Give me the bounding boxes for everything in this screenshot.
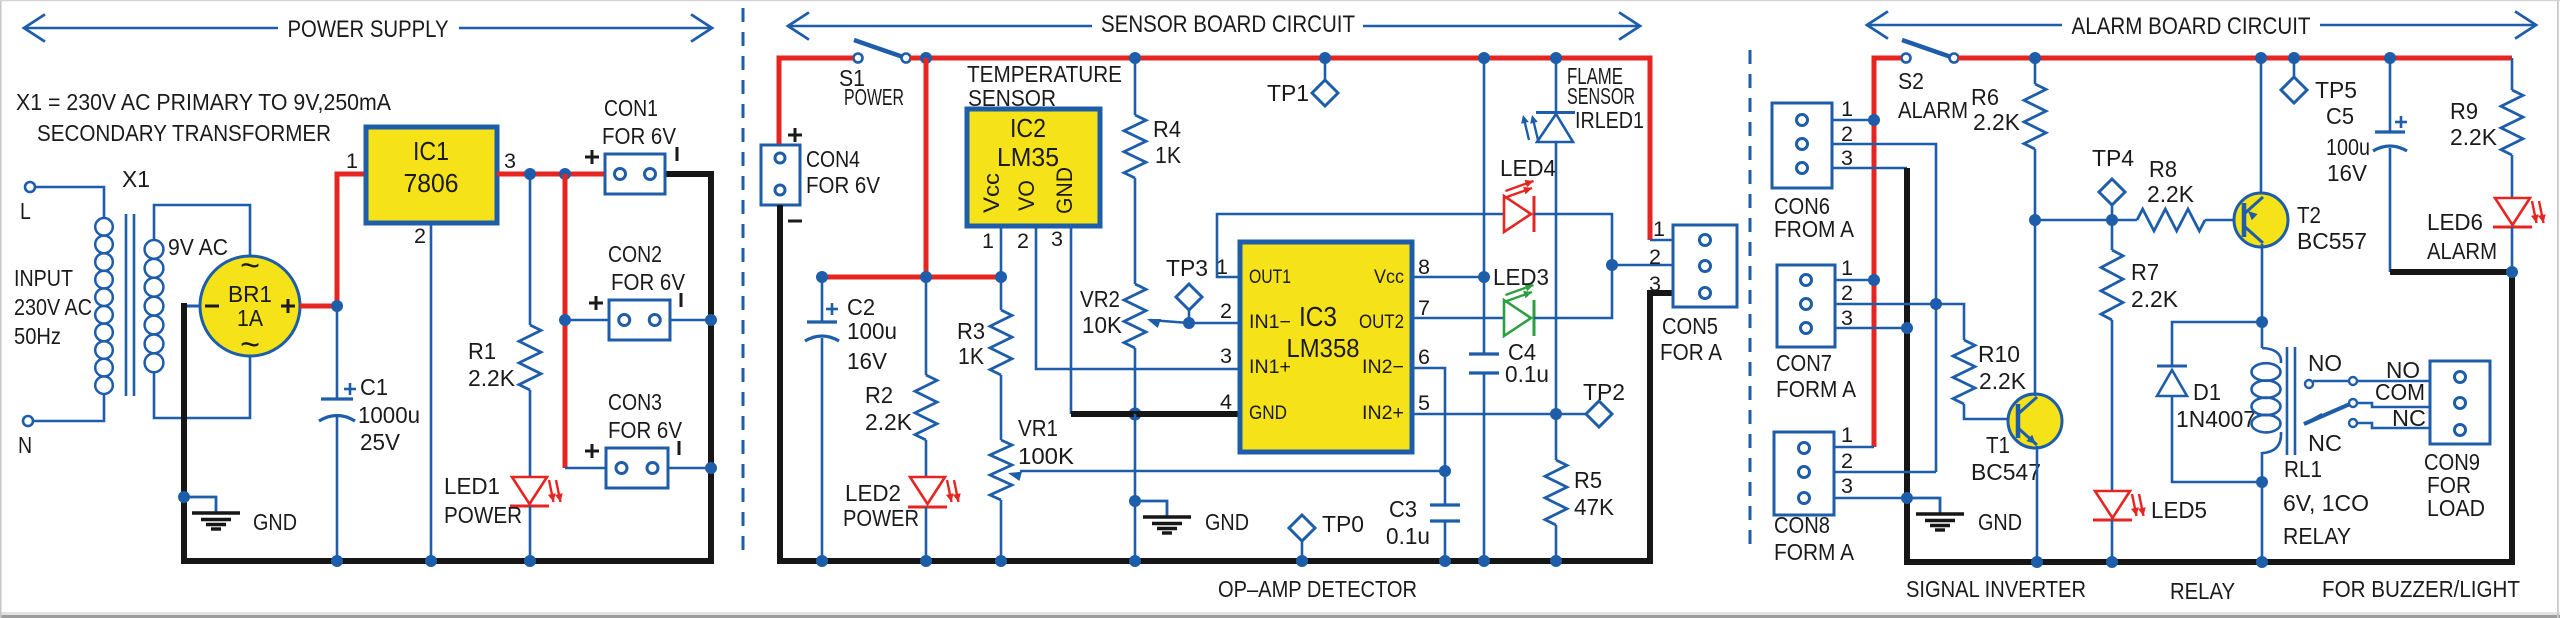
node C2 top	[816, 271, 828, 283]
svg-text:CON8: CON8	[1774, 512, 1830, 538]
svg-text:1K: 1K	[1155, 142, 1182, 168]
ground symbol GND alarm	[1907, 498, 2022, 535]
connector CON4	[761, 128, 802, 221]
label D1 1N4007	[2176, 379, 2256, 432]
node CON7 pin1	[1868, 274, 1880, 286]
svg-text:1K: 1K	[958, 343, 985, 369]
connector CON8	[1774, 424, 1853, 515]
switch S1	[854, 40, 911, 63]
red wire BR1+ to IC1 pin1	[300, 174, 366, 306]
svg-text:FORM A: FORM A	[1774, 539, 1855, 565]
red top bus sensor	[910, 58, 1650, 240]
node T1 emitter bottom	[2031, 556, 2043, 568]
wire LED4 cathode to CON5 pin2	[1534, 214, 1673, 265]
svg-text:D1: D1	[2193, 379, 2221, 405]
red wire S2 left	[1874, 58, 1901, 447]
svg-text:3: 3	[1841, 147, 1853, 170]
op-amp IC3 LM358	[1240, 242, 1412, 452]
connector CON1	[585, 147, 677, 194]
wire T2 collector to relay	[2261, 244, 2264, 348]
svg-text:3: 3	[1841, 307, 1853, 330]
node C5 top	[2384, 52, 2396, 64]
node LED2 bottom	[920, 555, 932, 567]
node CON7 pin2 / R10 junction	[1930, 298, 1942, 310]
svg-text:1000u: 1000u	[358, 402, 420, 428]
capacitor C5	[2373, 116, 2407, 151]
node S1 output	[920, 52, 932, 64]
node R5 top junction	[1550, 408, 1562, 420]
node C4 bottom	[1478, 555, 1490, 567]
svg-text:NC: NC	[2392, 405, 2426, 431]
temperature sensor IC2 LM35	[967, 109, 1100, 226]
wire secondary top to BR1	[154, 205, 250, 256]
wire R4 to VR2	[1134, 178, 1137, 284]
transistor T2 BC557	[2234, 193, 2288, 247]
svg-text:Vcc: Vcc	[1374, 267, 1404, 288]
svg-text:FORM A: FORM A	[1776, 376, 1857, 402]
wire to R4	[1134, 58, 1137, 115]
svg-text:FOR A: FOR A	[1660, 339, 1723, 365]
section arrow SENSOR BOARD CIRCUIT	[788, 11, 1640, 40]
wire CON7 pin2	[1835, 303, 1936, 306]
svg-text:2: 2	[1220, 300, 1232, 323]
node C1 bottom	[331, 555, 343, 567]
wire LED3 cathode up to junction	[1534, 265, 1612, 318]
IC2 pin 1 wire	[1000, 226, 1003, 277]
svg-text:2: 2	[414, 225, 426, 248]
node VR1 bottom	[995, 555, 1007, 567]
label CON9 FOR LOAD	[2424, 449, 2485, 521]
connector CON3	[585, 441, 679, 488]
svg-text:GND: GND	[253, 509, 297, 535]
relay contact NO	[2305, 350, 2430, 388]
svg-text:2.2K: 2.2K	[2450, 124, 2498, 150]
preset VR2	[1080, 284, 1146, 348]
wire junction to TP4 node	[2035, 219, 2137, 222]
label INPUT 230V AC 50Hz	[14, 265, 92, 349]
svg-text:2.2K: 2.2K	[2131, 286, 2179, 312]
svg-text:9V AC: 9V AC	[168, 234, 228, 260]
wire to IRLED1	[1555, 58, 1558, 112]
svg-text:IN1+: IN1+	[1249, 357, 1291, 378]
capacitor C1	[319, 383, 356, 421]
svg-text:FROM A: FROM A	[1774, 216, 1855, 242]
svg-text:FOR 6V: FOR 6V	[608, 417, 683, 443]
black ground bus sensor	[1071, 411, 1240, 417]
wire T2 emitter	[2260, 58, 2263, 196]
ground symbol GND sensor	[1135, 501, 1249, 535]
svg-text:100u: 100u	[2326, 134, 2370, 160]
IC2 pin 3 wire to ground bus	[1070, 226, 1073, 414]
node CON7 pin3	[1901, 322, 1913, 334]
red top bus alarm	[1958, 56, 2512, 61]
wire rail to C4	[1483, 58, 1486, 354]
VR2 wiper wire	[1150, 320, 1189, 323]
svg-text:OUT2: OUT2	[1359, 312, 1404, 333]
resistor R5	[1545, 460, 1615, 525]
svg-text:GND: GND	[1205, 509, 1249, 535]
svg-text:SENSOR: SENSOR	[1567, 83, 1635, 109]
svg-text:R1: R1	[468, 338, 496, 364]
resistor R3	[957, 310, 1012, 375]
svg-text:FOR 6V: FOR 6V	[611, 269, 686, 295]
photodiode IRLED1 flame sensor	[1521, 113, 1575, 143]
wire R3 to VR1	[1000, 375, 1003, 440]
wire ground bus down	[1134, 414, 1137, 561]
label S1 POWER	[839, 65, 904, 110]
resistor R2	[865, 375, 937, 440]
connector CON2	[589, 293, 681, 340]
LED LED4	[1500, 155, 1556, 232]
test point TP3	[1166, 255, 1208, 323]
svg-text:100u: 100u	[847, 318, 897, 344]
node R5 bottom	[1550, 555, 1562, 567]
resistor R9	[2450, 90, 2523, 155]
label LED2 POWER	[843, 480, 919, 531]
wire relay coil bottom	[2261, 452, 2264, 562]
node D1 top junction	[2256, 316, 2268, 328]
svg-text:0.1u: 0.1u	[1386, 523, 1430, 549]
label T1 BC547	[1971, 432, 2041, 485]
wire N to primary	[33, 395, 104, 421]
node R6 top	[2029, 52, 2041, 64]
wire CON8 pin2	[1834, 471, 1936, 474]
svg-text:5: 5	[1418, 392, 1430, 415]
wire C5 to black corner	[2389, 148, 2392, 272]
wire to C3	[1444, 471, 1447, 505]
svg-text:3: 3	[1051, 228, 1063, 251]
wire LED1 to bottom	[529, 506, 532, 561]
label CON7 FORM A	[1776, 350, 1857, 402]
svg-text:C1: C1	[360, 374, 388, 400]
terminal L	[20, 182, 35, 224]
capacitor C4	[1469, 339, 1549, 387]
node C4 top rail	[1478, 52, 1490, 64]
svg-text:CON3: CON3	[608, 389, 662, 415]
wire T1 emitter to bottom	[2036, 446, 2039, 562]
svg-text:50Hz: 50Hz	[14, 323, 61, 349]
label C1 1000u 25V	[358, 374, 420, 455]
svg-text:SIGNAL INVERTER: SIGNAL INVERTER	[1906, 576, 2086, 602]
wire secondary bottom to BR1	[154, 356, 250, 418]
node gnd branch	[1129, 495, 1141, 507]
svg-text:NO: NO	[2308, 350, 2342, 376]
label C2 100u 16V	[847, 294, 897, 374]
label CON5 FOR A	[1660, 313, 1723, 365]
svg-text:8: 8	[1418, 256, 1430, 279]
svg-text:CON2: CON2	[608, 241, 662, 267]
resistor R4	[1124, 115, 1182, 178]
svg-text:16V: 16V	[2327, 160, 2368, 186]
node IC1 pin2 bottom	[425, 555, 437, 567]
node Vcc/C4 junction	[1478, 271, 1490, 283]
svg-text:VO: VO	[1014, 180, 1039, 211]
wire CON3 right	[668, 467, 711, 470]
resistor R1	[468, 325, 541, 391]
wire LED2 to bottom	[925, 507, 928, 561]
svg-text:IRLED1: IRLED1	[1575, 107, 1644, 133]
label CON8 FORM A	[1774, 512, 1855, 565]
wire R8 to T2 base	[2205, 219, 2235, 222]
wire to R3	[1000, 277, 1003, 310]
svg-text:7806: 7806	[404, 168, 459, 198]
svg-text:POWER: POWER	[444, 502, 522, 528]
test point TP2	[1556, 379, 1625, 427]
svg-text:R8: R8	[2149, 156, 2177, 182]
bridge rectifier BR1	[200, 247, 300, 364]
wire R2 to LED2	[925, 440, 928, 477]
test point TP1	[1267, 52, 1338, 106]
transistor T1 BC547	[2008, 394, 2062, 448]
note transformer spec	[16, 89, 392, 146]
wire IC3 pin1 OUT1 loop to LED4	[1217, 214, 1504, 277]
svg-text:1: 1	[982, 230, 994, 253]
node R6/T1/R8 junction	[2029, 214, 2041, 226]
node R3 top / IC2 Vcc junction	[995, 271, 1007, 283]
wire R5 to bottom	[1555, 525, 1558, 561]
LED LED6	[2493, 198, 2546, 227]
node C2 bottom	[816, 555, 828, 567]
svg-text:POWER SUPPLY: POWER SUPPLY	[288, 16, 449, 43]
svg-text:FOR BUZZER/LIGHT: FOR BUZZER/LIGHT	[2322, 576, 2520, 602]
svg-text:SENSOR BOARD CIRCUIT: SENSOR BOARD CIRCUIT	[1101, 11, 1355, 38]
svg-text:2: 2	[1649, 246, 1661, 269]
svg-text:TP1: TP1	[1267, 80, 1309, 106]
svg-text:R7: R7	[2131, 259, 2159, 285]
wire IC1 pin2 to bottom	[430, 223, 433, 561]
svg-text:~: ~	[240, 247, 260, 285]
node CON3 right on black bus	[705, 462, 717, 474]
wire T1 collector	[2034, 220, 2037, 396]
label TEMPERATURE SENSOR	[967, 61, 1122, 111]
label CON1 FOR 6V	[602, 95, 677, 149]
svg-text:2.2K: 2.2K	[1979, 368, 2027, 394]
wire IC3 pin6 IN2- to C3	[1412, 368, 1445, 471]
svg-text:OP–AMP DETECTOR: OP–AMP DETECTOR	[1218, 576, 1417, 602]
svg-text:1: 1	[1653, 218, 1665, 241]
svg-text:TP2: TP2	[1583, 379, 1625, 405]
black ground bus: BR1 minus, left/bottom/right of power section	[184, 305, 200, 308]
svg-text:ALARM: ALARM	[1898, 97, 1968, 123]
svg-text:100K: 100K	[1018, 443, 1075, 469]
wire to R6	[2034, 58, 2037, 84]
svg-text:ALARM: ALARM	[2427, 238, 2497, 264]
wire R10 to T1 base	[1964, 404, 2009, 419]
svg-text:R5: R5	[1574, 467, 1602, 493]
wire VR2 to ground bus	[1134, 348, 1137, 414]
black wire C5 to right bus	[2390, 269, 2512, 275]
relay contact NC	[2308, 419, 2430, 456]
preset VR1	[990, 415, 1075, 500]
svg-text:230V AC: 230V AC	[14, 294, 92, 320]
label FLAME SENSOR	[1567, 63, 1635, 109]
wire R9 to LED6	[2511, 155, 2514, 197]
svg-text:LM35: LM35	[997, 142, 1059, 172]
svg-text:IN1−: IN1−	[1249, 312, 1291, 333]
svg-text:6: 6	[1418, 346, 1430, 369]
svg-text:RL1: RL1	[2284, 456, 2322, 482]
node LED6 bottom junction	[2506, 266, 2518, 278]
node LED1 bottom	[524, 555, 536, 567]
svg-text:LED3: LED3	[1493, 264, 1549, 290]
node T2 emitter rail	[2255, 52, 2267, 64]
svg-text:Vcc: Vcc	[979, 173, 1004, 213]
svg-text:C3: C3	[1389, 496, 1417, 522]
node D1 bottom junction	[2256, 476, 2268, 488]
svg-text:TP5: TP5	[2315, 77, 2357, 103]
svg-text:SECONDARY TRANSFORMER: SECONDARY TRANSFORMER	[37, 120, 331, 146]
svg-text:FOR 6V: FOR 6V	[806, 172, 881, 198]
wire CON7 pin1 to red	[1835, 279, 1874, 282]
test point TP4	[2092, 145, 2134, 220]
wire LED5 to bottom	[2111, 520, 2114, 562]
wire to C1	[336, 306, 339, 399]
svg-text:POWER: POWER	[844, 84, 904, 110]
svg-text:T2: T2	[2297, 202, 2321, 228]
regulator IC1 7806	[366, 127, 497, 223]
transformer X1 secondary coil	[145, 240, 164, 372]
svg-text:4: 4	[1220, 391, 1232, 414]
wire C4 to bottom	[1483, 373, 1486, 561]
IC2 pin 2 wire to IC3 IN1+	[1036, 226, 1240, 369]
svg-text:BC547: BC547	[1971, 459, 2041, 485]
wire to R5	[1555, 414, 1558, 460]
wire to R7	[2111, 220, 2114, 250]
label CON3 FOR 6V	[608, 389, 683, 443]
svg-text:1: 1	[1841, 424, 1853, 447]
wire R1 to LED1	[529, 390, 532, 477]
connector CON7	[1777, 257, 1853, 347]
node CON2 right on black bus	[705, 314, 717, 326]
LED LED5	[2093, 491, 2207, 523]
svg-text:OUT1: OUT1	[1249, 267, 1291, 288]
wire CON2 right	[670, 319, 711, 322]
svg-text:10K: 10K	[1082, 312, 1123, 338]
label CON4 FOR 6V	[806, 146, 881, 198]
svg-text:1N4007: 1N4007	[2176, 406, 2256, 432]
flyback diode D1 1N4007 loop	[2172, 322, 2262, 482]
node R4 top	[1129, 52, 1141, 64]
svg-text:BR1: BR1	[228, 281, 272, 307]
ground symbol GND power	[178, 491, 297, 535]
node C3 bottom	[1439, 555, 1451, 567]
wire CON8 pin1 to red end	[1834, 446, 1874, 449]
svg-text:IC1: IC1	[413, 136, 449, 166]
terminal N	[18, 416, 33, 458]
svg-text:2: 2	[1841, 282, 1853, 305]
svg-text:R9: R9	[2450, 98, 2478, 124]
svg-text:GND: GND	[1249, 403, 1287, 424]
red wire IC1 pin3 to CON1	[497, 172, 606, 177]
labels NO COM NC right	[2375, 357, 2426, 431]
svg-text:ALARM BOARD CIRCUIT: ALARM BOARD CIRCUIT	[2072, 13, 2311, 40]
wire CON6 pin3 to black bus	[1832, 167, 1907, 170]
svg-text:3: 3	[1841, 475, 1853, 498]
wire to C2	[821, 277, 824, 322]
node CON2 left	[559, 314, 571, 326]
capacitor C3	[1386, 496, 1460, 549]
dashed separator 2	[1749, 50, 1752, 545]
svg-text:R2: R2	[865, 382, 893, 408]
wire CON8 pin3 to gnd node	[1834, 497, 1907, 500]
svg-text:IN2−: IN2−	[1362, 357, 1404, 378]
wire L to primary	[35, 187, 104, 217]
svg-text:CON7: CON7	[1776, 350, 1832, 376]
dashed separator 1	[742, 8, 745, 555]
node C1 junction	[331, 300, 343, 312]
svg-text:CON5: CON5	[1662, 313, 1718, 339]
label RL1 6V 1CO RELAY	[2283, 456, 2369, 549]
svg-text:LED6: LED6	[2427, 209, 2483, 235]
label CON6 FROM A	[1774, 193, 1855, 242]
svg-text:N: N	[18, 432, 32, 458]
wire C2 to bottom	[821, 338, 824, 561]
wire IC3 pin2 IN1-	[1189, 322, 1240, 325]
wire IC3 pin7 OUT2 to LED3	[1412, 317, 1504, 320]
svg-text:2: 2	[1841, 450, 1853, 473]
svg-text:R10: R10	[1978, 341, 2020, 367]
wire IC3 pin5 IN2+	[1412, 413, 1556, 416]
connector CON9	[2430, 361, 2490, 444]
wire to R2	[925, 277, 928, 375]
svg-text:C2: C2	[847, 294, 875, 320]
black wire CON4 minus + sensor bottom bus + CON5 pin3	[780, 205, 1673, 561]
connector CON5	[1649, 218, 1737, 307]
capacitor C2	[805, 303, 839, 341]
svg-text:GND: GND	[1978, 509, 2022, 535]
wire R6 to T1 collector node	[2034, 149, 2037, 220]
red wire S1 left to CON4	[779, 58, 853, 147]
node relay bottom bus	[2256, 556, 2268, 568]
svg-text:47K: 47K	[1574, 494, 1615, 520]
svg-text:LED4: LED4	[1500, 155, 1556, 181]
svg-text:COM: COM	[2375, 379, 2425, 405]
svg-text:RELAY: RELAY	[2283, 523, 2351, 549]
svg-text:IN2+: IN2+	[1362, 403, 1404, 424]
wire IC3 pin8 Vcc	[1412, 276, 1484, 279]
label CON2 FOR 6V	[608, 241, 686, 295]
svg-text:0.1u: 0.1u	[1505, 361, 1549, 387]
svg-text:S2: S2	[1898, 68, 1924, 94]
svg-text:LOAD: LOAD	[2427, 495, 2485, 521]
label C5 100u 16V	[2326, 103, 2370, 186]
svg-text:3: 3	[504, 150, 516, 173]
transformer X1 primary coil	[95, 218, 113, 394]
VR1 wiper wire	[1020, 470, 1445, 473]
test point TP0	[1289, 511, 1364, 567]
svg-text:25V: 25V	[360, 429, 401, 455]
svg-text:IC2: IC2	[1010, 113, 1046, 143]
node VR2 bottom on ground bus	[1129, 408, 1142, 421]
svg-text:LED2: LED2	[845, 480, 901, 506]
switch S2	[1902, 40, 1959, 63]
node LED3/LED4 junction	[1606, 259, 1618, 271]
wire CON6 pin2 down to R10 node	[1832, 144, 1936, 472]
node TP3/VR2/IN1- junction	[1183, 317, 1195, 329]
svg-text:2.2K: 2.2K	[468, 365, 516, 391]
label LED6 ALARM	[2427, 209, 2497, 264]
wire C3 to bottom	[1444, 521, 1447, 561]
svg-text:R4: R4	[1153, 116, 1181, 142]
wire CON3 left	[565, 467, 606, 470]
wire R7 to LED5	[2111, 320, 2114, 490]
svg-text:TP4: TP4	[2092, 145, 2134, 171]
svg-text:NC: NC	[2308, 430, 2342, 456]
svg-text:3: 3	[1220, 345, 1232, 368]
wire CON7 pin3 to black	[1835, 327, 1907, 330]
svg-text:TP3: TP3	[1166, 255, 1208, 281]
node LED5 bottom	[2106, 556, 2118, 568]
